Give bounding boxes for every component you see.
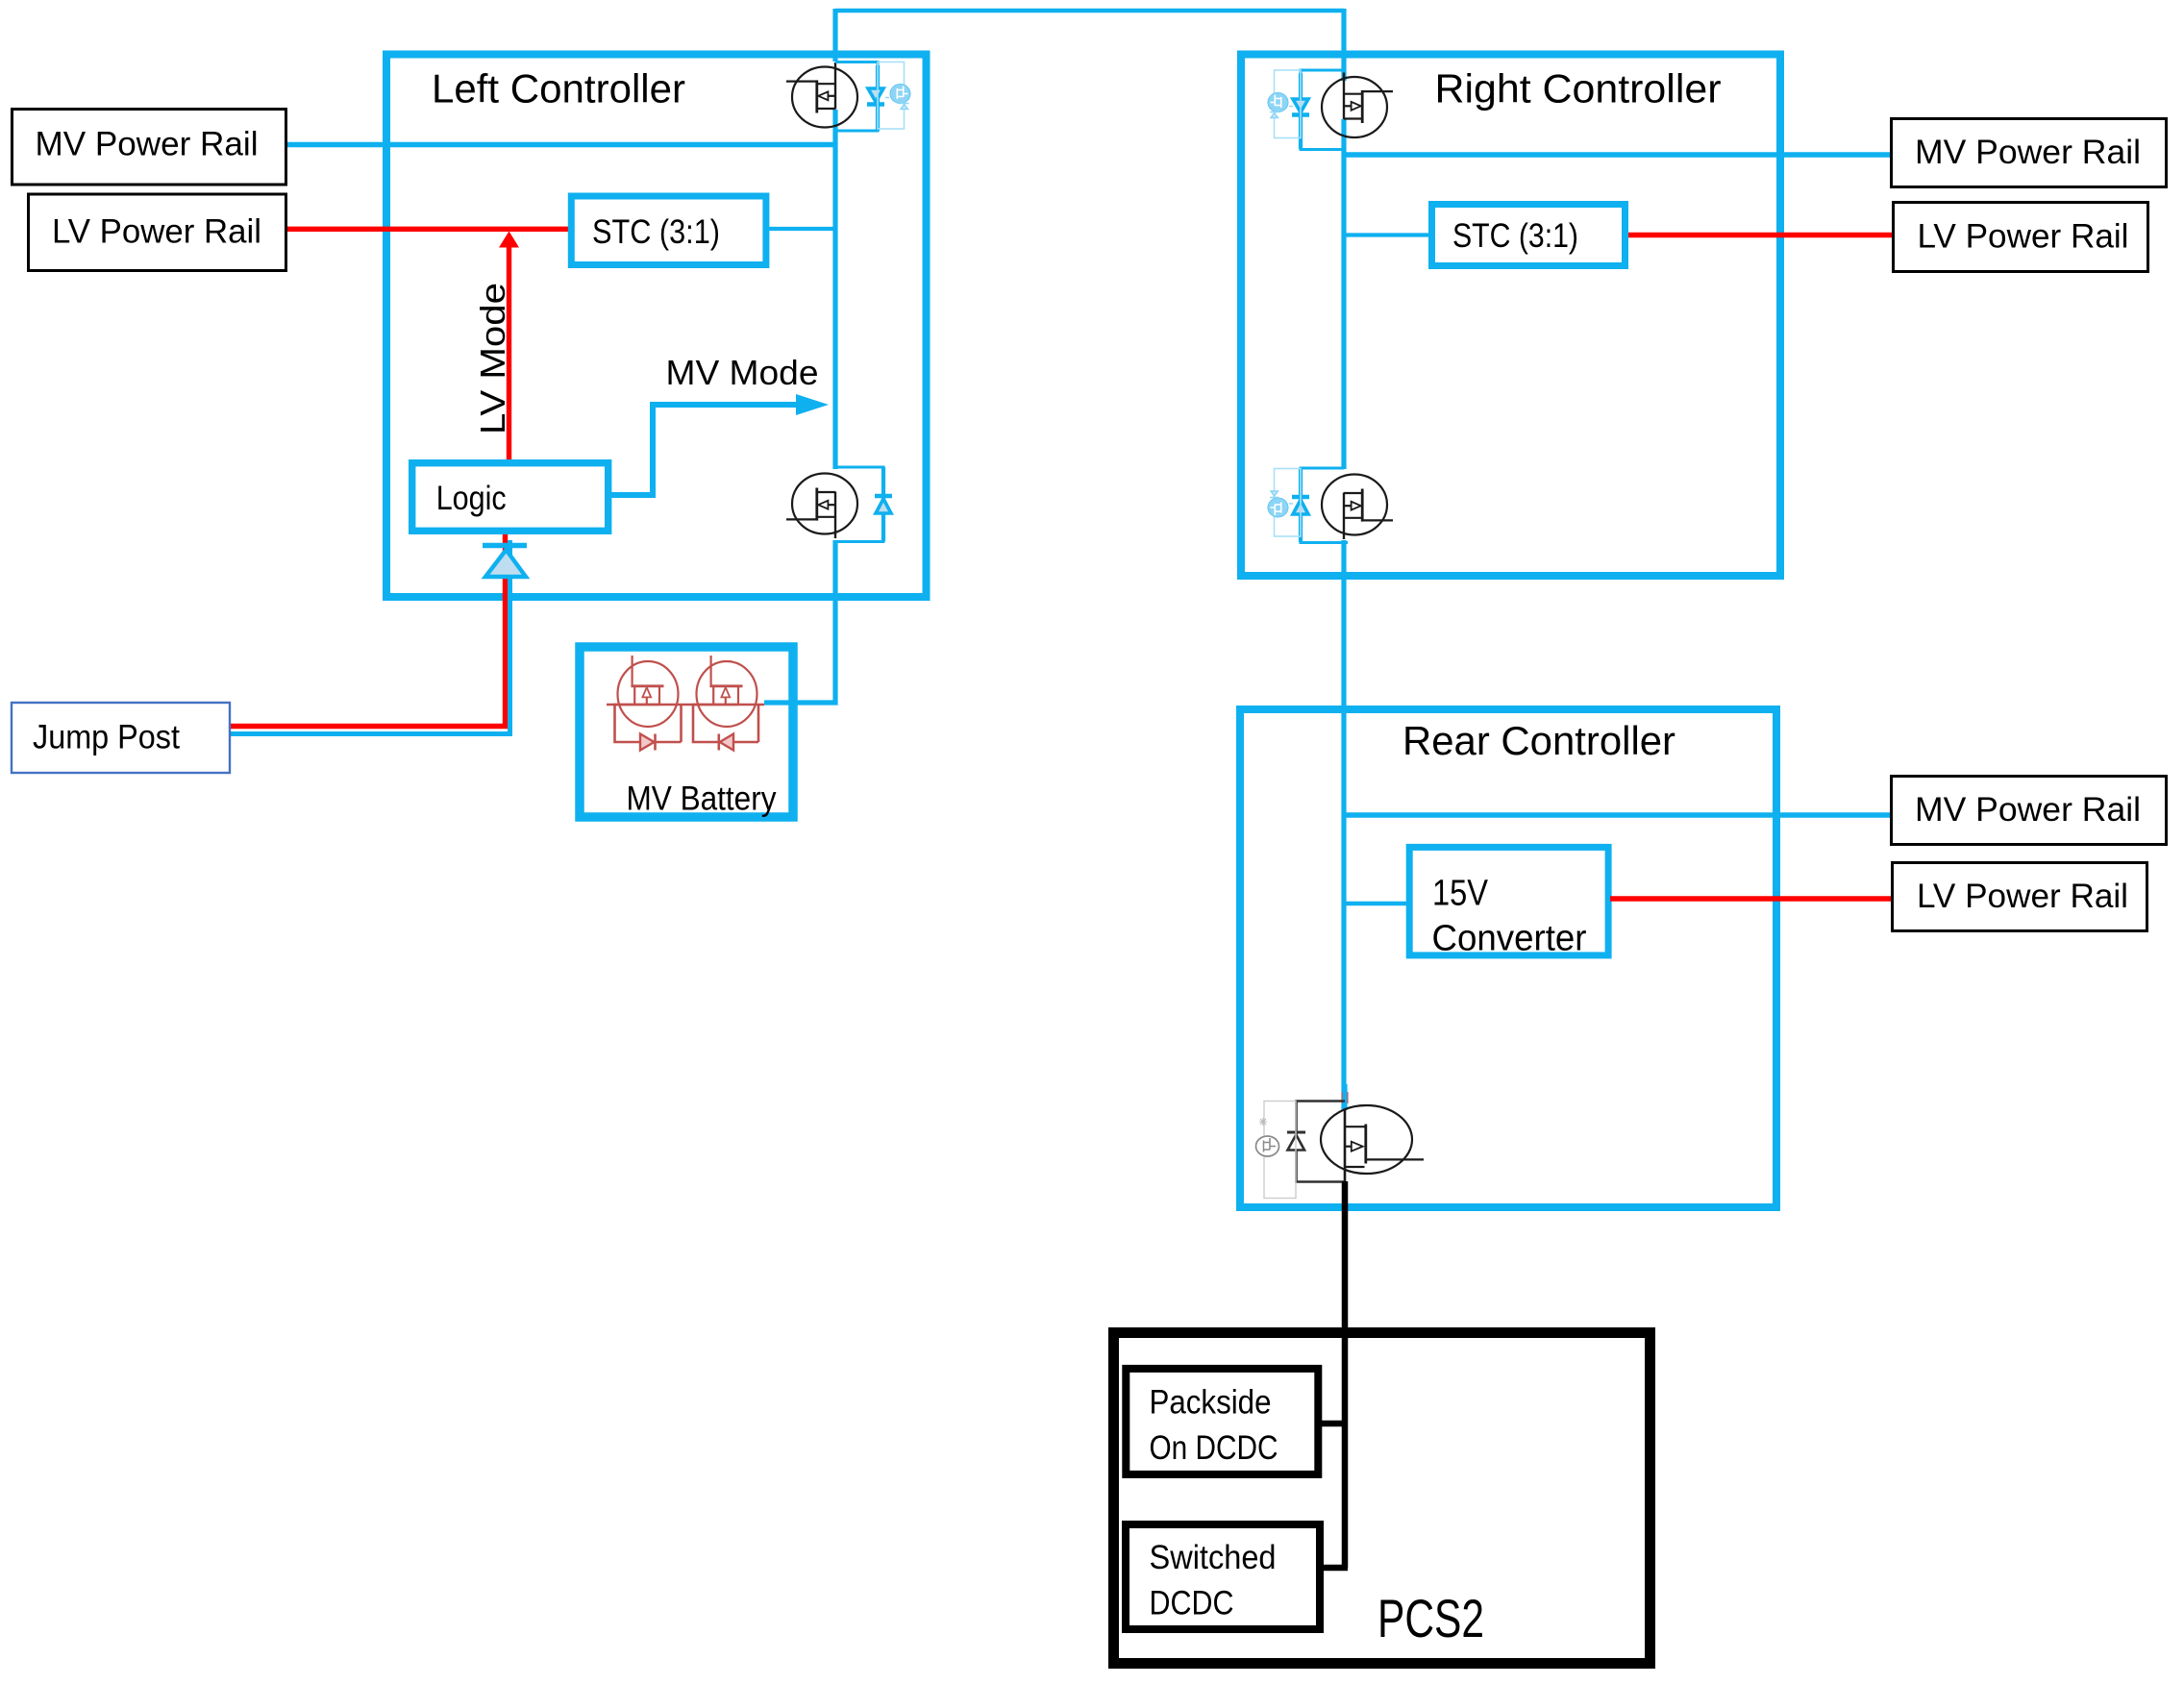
battery back-to-back mosfet QB1 — [613, 656, 679, 727]
svg-text:PCS2: PCS2 — [1377, 1588, 1484, 1648]
svg-text:MV Power Rail: MV Power Rail — [1915, 134, 2141, 171]
body diode D3 loop of Q2 — [835, 467, 883, 542]
Rear Controller box — [1240, 709, 1776, 1207]
faded grey parallel-mosfet icon group (Q6) — [1256, 1102, 1297, 1199]
wire: rail to STC (right) — [1344, 233, 1428, 236]
wire: black feed from Q6 to PCS2 DCDC units — [1342, 1181, 1349, 1568]
svg-text:Right Controller: Right Controller — [1435, 66, 1722, 111]
battery body diode DB2 loop — [693, 705, 718, 742]
arrowhead: LV Mode — [499, 232, 519, 248]
faded parallel-mosfet icon group (Q3) — [1268, 70, 1301, 138]
15V Converter box — [1409, 847, 1608, 955]
svg-text:STC (3:1): STC (3:1) — [592, 213, 720, 251]
svg-text:Left Controller: Left Controller — [432, 66, 685, 111]
svg-text:LV Power Rail: LV Power Rail — [52, 213, 261, 251]
svg-text:LV Power Rail: LV Power Rail — [1917, 878, 2128, 915]
arrowhead: MV Mode — [796, 394, 829, 415]
body diode D5 loop of Q4 — [1301, 468, 1348, 543]
diode D2 (blue, points down) — [868, 88, 883, 102]
wire: drop from top run into Right Controller top MOSFET drain — [1341, 9, 1346, 81]
wire: red feed from Jump Post up through diode into Logic — [231, 534, 506, 727]
svg-text:MV Power Rail: MV Power Rail — [36, 126, 259, 163]
body diode D2 loop of Q1 — [835, 62, 878, 132]
wire: LV power rail feed (red) to STC — [287, 227, 571, 232]
svg-text:DCDC: DCDC — [1150, 1584, 1234, 1622]
diode D1 triangle — [485, 550, 526, 577]
svg-text:MV Battery: MV Battery — [627, 780, 777, 818]
wire: main left vertical rail (upper section) — [832, 110, 837, 469]
Left Controller box — [386, 55, 927, 598]
wire: main right vertical rail (lower section) through Rear Controller — [1341, 540, 1346, 1110]
svg-text:15V: 15V — [1432, 874, 1489, 914]
svg-text:Rear Controller: Rear Controller — [1402, 718, 1675, 763]
wire: main right vertical rail (upper section) — [1341, 119, 1346, 469]
wire: MV power rail feed (blue) into left controller — [287, 142, 835, 148]
svg-text:MV Mode: MV Mode — [666, 353, 819, 392]
svg-text:Converter: Converter — [1432, 919, 1587, 959]
diode D4 (blue, points down) — [1293, 99, 1308, 112]
wire: MV power rail feed (blue, right) — [1344, 152, 1890, 158]
svg-text:STC (3:1): STC (3:1) — [1452, 217, 1578, 255]
STC (3:1) box (right) — [1432, 205, 1626, 266]
wire: 15V Converter output (red) to LV Power Rail (rear) — [1610, 896, 1891, 901]
wire: STC output (red) to LV Power Rail (right) — [1628, 233, 1892, 238]
Jump Post box — [12, 703, 230, 773]
LV Power Rail box (left) — [29, 194, 286, 271]
mosfet Q4 (Right Controller, bottom) — [1322, 475, 1393, 540]
wire: top interconnect run between Left and Right controllers — [835, 9, 1344, 13]
Packside On DCDC box — [1126, 1369, 1318, 1474]
LV Power Rail box (right top) — [1894, 203, 2148, 272]
svg-text:On DCDC: On DCDC — [1150, 1428, 1278, 1467]
body diode D6 loop of Q6 (black) — [1297, 1102, 1346, 1182]
wire: main left vertical rail (lower section) down to MV Battery — [764, 540, 835, 703]
wire: drop from top run into Left Controller top MOSFET drain — [832, 9, 837, 62]
wire: rail to 15V Converter — [1344, 902, 1409, 906]
battery back-to-back mosfet QB2 — [692, 656, 757, 727]
faded parallel-mosfet icon group (Q4) — [1268, 469, 1301, 537]
PCS2 box — [1114, 1333, 1650, 1664]
mosfet Q2 (Left Controller, bottom) — [786, 474, 857, 539]
Logic box — [412, 463, 608, 532]
wire: MV Mode signal from Logic to lower MOSFET gate rail — [609, 405, 797, 495]
diode D6 (black outline, points up) — [1287, 1131, 1305, 1134]
wire: stub to Packside On DCDC — [1321, 1421, 1348, 1427]
Right Controller box — [1241, 55, 1780, 577]
body diode D4 loop of Q3 — [1301, 70, 1344, 150]
MV Power Rail box (rear) — [1892, 777, 2167, 845]
svg-text:MV Power Rail: MV Power Rail — [1915, 791, 2141, 829]
node: connection point marker above Q6 — [1342, 1092, 1349, 1103]
MV Battery box — [580, 647, 793, 817]
wire: LV Mode arrow (red) from Logic up to LV feed — [507, 245, 511, 465]
svg-text:Jump Post: Jump Post — [33, 719, 180, 756]
LV Power Rail box (rear) — [1893, 863, 2147, 931]
mosfet Q3 (Right Controller, top) — [1322, 73, 1393, 138]
MV Power Rail box (right top) — [1892, 119, 2167, 187]
battery body diode DB1 loop — [615, 705, 640, 742]
diode D1 (blue, below Logic): cathode bar — [483, 543, 527, 549]
diode D3 (blue, points up) — [875, 494, 892, 498]
wire: blue feed parallel to Jump Post red feed — [231, 540, 510, 734]
wire: STC output to main vertical rail — [769, 227, 835, 231]
wire: MV power rail feed (blue, rear) — [1344, 812, 1890, 818]
mosfet Q6 (Rear Controller) — [1321, 1105, 1424, 1182]
svg-text:Switched: Switched — [1150, 1538, 1277, 1576]
Switched DCDC box — [1126, 1524, 1320, 1629]
battery drain-source bus (red) — [607, 704, 764, 706]
mosfet Q1 (Left Controller, top) — [786, 62, 857, 128]
svg-text:Logic: Logic — [436, 480, 507, 517]
svg-text:LV Power Rail: LV Power Rail — [1918, 218, 2129, 256]
MV Power Rail box (left) — [12, 110, 286, 186]
svg-text:LV Mode: LV Mode — [473, 283, 512, 434]
faded parallel-mosfet icon group (Q1) — [878, 62, 910, 130]
STC (3:1) box (left) — [571, 196, 766, 265]
wire: stub to Switched DCDC — [1321, 1565, 1348, 1572]
svg-text:Packside: Packside — [1150, 1383, 1272, 1422]
diode D5 (blue, points up) — [1292, 495, 1309, 499]
